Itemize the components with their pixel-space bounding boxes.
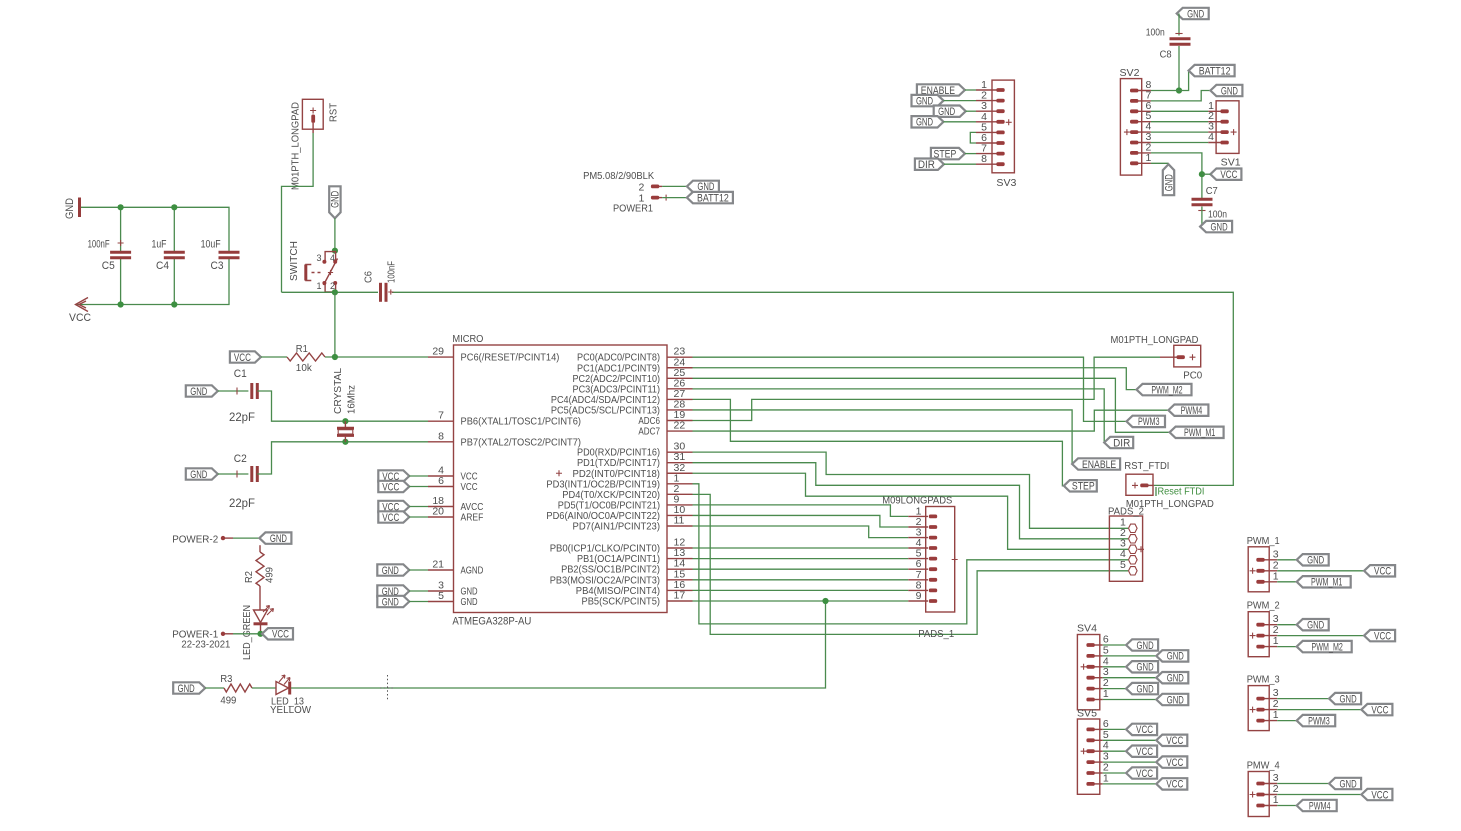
wire SV5.3 wire: [1103, 761, 1157, 763]
svg-text:PD5(T1/OC0B/PCINT21): PD5(T1/OC0B/PCINT21): [558, 500, 660, 511]
ground flag GND (PWM_2): [1297, 619, 1329, 632]
svg-text:GND: GND: [461, 597, 478, 608]
wire PB2 pin14 to PADS_1.6: [693, 568, 909, 570]
wire PWM_2.GND wire: [1277, 624, 1297, 626]
wire PWM_2.PWM_M2 wire: [1277, 646, 1297, 648]
connector RST M01PTH_LONGPAD pad: [290, 99, 340, 190]
junction: [1199, 171, 1205, 177]
wire PB0 pin12 to PADS_1.4: [693, 547, 909, 549]
svg-text:PC0: PC0: [1183, 370, 1202, 382]
svg-text:BATT12: BATT12: [697, 192, 729, 204]
svg-text:GND: GND: [1307, 555, 1324, 567]
wire switch to C6: [282, 291, 379, 293]
svg-text:SV2: SV2: [1120, 67, 1140, 79]
svg-text:LED_GREEN: LED_GREEN: [241, 605, 253, 660]
wire SV3.5 to SV3.6 bridge: [970, 132, 976, 143]
wire SV4.1 wire: [1103, 699, 1157, 701]
ground flag GND (POWER1): [687, 181, 719, 194]
svg-text:PWM_3: PWM_3: [1247, 674, 1280, 686]
wire RST pad to switch: [282, 133, 314, 292]
svg-text:10k: 10k: [296, 362, 313, 374]
svg-text:4: 4: [330, 253, 335, 263]
svg-text:100n: 100n: [1146, 27, 1165, 39]
wire SV2.1 to GND: [1151, 162, 1169, 164]
svg-text:M01PTH_LONGPAD: M01PTH_LONGPAD: [1111, 334, 1199, 346]
svg-text:ENABLE: ENABLE: [1082, 459, 1116, 471]
wire to BATT12 flag: [1179, 71, 1189, 91]
svg-text:PWM_M1: PWM_M1: [1311, 577, 1342, 589]
capacitor C3 10uF: [201, 239, 240, 273]
wire POWER-1 to VCC: [233, 633, 262, 635]
connector PADS_2 (FTDI pads): [1108, 506, 1144, 582]
wire C8 to SV2.8 net: [1178, 46, 1180, 91]
connector SV3: [976, 79, 1017, 189]
svg-text:PB0(ICP1/CLKO/PCINT0): PB0(ICP1/CLKO/PCINT0): [550, 544, 660, 555]
svg-text:C4: C4: [156, 260, 169, 272]
ground flag GND (C1): [186, 385, 218, 398]
net flag DIR: [1104, 437, 1133, 450]
wire PD4 pin2 to PADS_2.5: [693, 494, 1129, 634]
svg-text:PD2(INT0/PCINT18): PD2(INT0/PCINT18): [573, 469, 661, 480]
svg-text:STEP: STEP: [1072, 481, 1095, 493]
ground flag GND (C7): [1200, 221, 1232, 234]
svg-text:VCC: VCC: [1166, 735, 1183, 747]
wire PB3 pin15 to PADS_1.7: [693, 579, 909, 581]
wire SV4.2 wire: [1103, 688, 1126, 690]
connector RST_FTDI M01PTH_LONGPAD pad: [1124, 460, 1214, 510]
ground flag GND (pin3): [377, 585, 409, 598]
power flag VCC (reset pullup): [230, 351, 261, 364]
svg-text:10uF: 10uF: [201, 239, 221, 251]
power flag VCC (SV5.3): [1156, 756, 1187, 769]
ground flag GND (SV4.4): [1126, 661, 1158, 674]
wire LED_13 to PADS_1 pin 9 net: [291, 601, 826, 688]
svg-text:PC3(ADC3/PCINT11): PC3(ADC3/PCINT11): [573, 384, 661, 395]
svg-text:ADC7: ADC7: [638, 427, 660, 438]
svg-text:GND: GND: [178, 683, 195, 695]
wire PWM_2.VCC wire: [1277, 635, 1364, 637]
wire PD3 pin1 to PADS_2.4: [693, 484, 1129, 624]
wire C7 to GND: [1201, 207, 1203, 227]
svg-text:SV4: SV4: [1077, 623, 1097, 635]
connector POWER-1 pin: [172, 629, 233, 641]
svg-text:11: 11: [674, 515, 685, 527]
svg-text:POWER1: POWER1: [613, 203, 653, 215]
svg-text:VCC: VCC: [1374, 566, 1391, 578]
svg-text:PWM4: PWM4: [1181, 405, 1203, 417]
svg-text:PB4(MISO/PCINT4): PB4(MISO/PCINT4): [576, 586, 660, 597]
net flag PWM_M1 (PWM_1): [1297, 576, 1351, 589]
svg-text:VCC: VCC: [1371, 704, 1388, 716]
svg-text:PD3(INT1/OC2B/PCINT19): PD3(INT1/OC2B/PCINT19): [546, 479, 660, 490]
wire PB5 pin17 to PADS_1.9: [693, 600, 909, 602]
net flag DIR (SV3.8): [915, 159, 944, 172]
svg-text:PC4(ADC4/SDA/PCINT12): PC4(ADC4/SDA/PCINT12): [551, 395, 660, 406]
svg-text:1: 1: [1103, 772, 1109, 784]
svg-text:100nF: 100nF: [88, 239, 110, 251]
wire PWM_1.VCC wire: [1277, 570, 1364, 572]
svg-text:M09LONGPADS: M09LONGPADS: [882, 495, 952, 507]
LED LED_GREEN: [241, 605, 274, 660]
wire PWM_3.VCC wire: [1277, 709, 1361, 711]
svg-text:GND: GND: [1187, 8, 1204, 20]
svg-text:PWM4: PWM4: [1309, 800, 1331, 812]
ground flag GND (SV4.5): [1156, 650, 1188, 663]
power flag VCC (SV5.6): [1126, 724, 1157, 737]
wire PC2 pin25 to PWM_M1: [693, 378, 1170, 432]
svg-text:C5: C5: [102, 260, 115, 272]
svg-text:RST: RST: [328, 102, 340, 122]
wire SV5.1 wire: [1103, 783, 1157, 785]
wire RXD pin30 to PADS_2.1: [693, 452, 1129, 528]
svg-text:PB1(OC1A/PCINT1): PB1(OC1A/PCINT1): [577, 554, 660, 565]
resistor R3 499: [220, 673, 252, 707]
wire VCC rail from C3: [76, 258, 230, 305]
wire GND rail to C3: [81, 207, 229, 252]
junction LED net: [822, 598, 828, 604]
svg-text:GND: GND: [1221, 85, 1238, 97]
net flag PWM4 (PMW_4): [1297, 800, 1337, 813]
wire PMW_4.GND wire: [1277, 783, 1329, 785]
svg-text:GND: GND: [1137, 683, 1154, 695]
connector PWM_3: [1247, 674, 1280, 731]
wire GND to pin 3: [409, 590, 428, 592]
net flag PWM3: [1127, 416, 1166, 429]
svg-text:VCC: VCC: [461, 472, 479, 483]
svg-text:GND: GND: [330, 191, 342, 208]
capacitor C8 100n: [1146, 27, 1191, 61]
wire GND to C8: [1178, 14, 1180, 36]
connector PMW_4: [1247, 760, 1280, 817]
svg-text:1: 1: [1273, 635, 1279, 647]
svg-text:AVCC: AVCC: [461, 502, 484, 513]
svg-text:VCC: VCC: [1166, 757, 1183, 769]
svg-text:GND: GND: [382, 565, 399, 577]
capacitor C5 100nF: [88, 239, 132, 273]
wire SV2.2 to VCC/C7 node: [1151, 153, 1202, 198]
svg-text:R2: R2: [243, 571, 255, 583]
wire PC0 pin23 to PWM3: [693, 357, 1127, 421]
wire VCC to AREF: [409, 516, 428, 518]
wire GND to SV3.3: [966, 110, 976, 112]
wire GND to SV3.2: [944, 100, 977, 102]
wire PB1 pin13 to PADS_1.5: [693, 558, 909, 560]
svg-text:MICRO: MICRO: [452, 333, 483, 345]
svg-text:1: 1: [1273, 709, 1279, 721]
svg-text:PD4(T0/XCK/PCINT20): PD4(T0/XCK/PCINT20): [562, 490, 660, 501]
svg-text:4: 4: [1208, 131, 1214, 143]
net flag STEP (SV3.7): [931, 148, 965, 161]
svg-text:PB7(XTAL2/TOSC2/PCINT7): PB7(XTAL2/TOSC2/PCINT7): [461, 437, 582, 448]
power flag VCC (SV5.5): [1156, 735, 1187, 748]
wire SV2.6 to SV1.1: [1151, 110, 1208, 112]
capacitor C6 100nF: [363, 261, 398, 302]
wire C6 to RST_FTDI pad: [392, 292, 1233, 485]
wire GND to R3: [205, 687, 224, 689]
power flag VCC (PWM_3): [1361, 704, 1392, 717]
svg-text:6: 6: [438, 475, 444, 487]
svg-text:C2: C2: [234, 453, 247, 465]
wire SV2.4 to SV1.3: [1151, 131, 1208, 133]
net flag ENABLE: [1072, 458, 1120, 471]
wire SV4.6 wire: [1103, 644, 1126, 646]
svg-text:VCC: VCC: [1374, 630, 1391, 642]
wire POWER1.2 to GND: [662, 185, 687, 187]
svg-text:GND: GND: [190, 386, 207, 398]
svg-text:C7: C7: [1206, 185, 1218, 197]
capacitor C1 22pF: [218, 368, 257, 424]
junction: [171, 301, 177, 307]
power flag VCC (AREF): [378, 511, 409, 524]
power flag VCC (pin6): [378, 481, 409, 494]
svg-text:GND: GND: [1167, 673, 1184, 685]
svg-text:GND: GND: [270, 533, 287, 545]
junction: [342, 439, 348, 445]
svg-text:1: 1: [1146, 152, 1152, 164]
ground flag GND (SV4.3): [1156, 672, 1188, 685]
power flag VCC (PMW_4): [1361, 789, 1392, 802]
svg-text:PMW_4: PMW_4: [1247, 760, 1280, 772]
wire ADC7 pin22 to PWM4: [693, 410, 1169, 431]
svg-text:VCC: VCC: [272, 629, 289, 641]
LED LED_13 YELLOW: [270, 675, 311, 716]
wire TXD pin31 to PADS_2.2: [693, 463, 1129, 539]
origin cross marker: [380, 675, 395, 701]
svg-text:ATMEGA328P-AU: ATMEGA328P-AU: [452, 616, 531, 628]
svg-text:499: 499: [264, 567, 276, 583]
svg-text:PWM_M2: PWM_M2: [1312, 641, 1343, 653]
svg-text:PC6(/RESET/PCINT14): PC6(/RESET/PCINT14): [461, 353, 560, 364]
svg-text:AREF: AREF: [461, 513, 484, 524]
svg-text:PADS_1: PADS_1: [918, 628, 954, 640]
svg-text:22-23-2021: 22-23-2021: [181, 639, 230, 651]
wire SV5.2 wire: [1103, 772, 1126, 774]
wire DIR to SV3.8: [944, 163, 976, 165]
svg-text:PB3(MOSI/OC2A/PCINT3): PB3(MOSI/OC2A/PCINT3): [550, 575, 660, 586]
wire STEP to SV3.7: [965, 153, 976, 155]
wire GND to pin 5: [409, 601, 428, 603]
svg-text:C8: C8: [1160, 49, 1172, 61]
ground flag GND (pin5): [377, 596, 409, 609]
connector SV4: [1077, 623, 1109, 710]
svg-text:C1: C1: [234, 368, 247, 380]
svg-text:1: 1: [1273, 794, 1279, 806]
wire PC5 pin28 to ENABLE: [693, 410, 1073, 464]
power flag VCC (SV5.1): [1156, 778, 1187, 791]
connector PWM_1: [1247, 535, 1280, 592]
resistor R2 499: [243, 545, 276, 610]
svg-text:GND: GND: [1167, 694, 1184, 706]
power flag VCC (SV5.4): [1126, 746, 1157, 759]
svg-text:PWM_2: PWM_2: [1247, 600, 1280, 612]
wire PD6 pin10 to PADS_1.2: [693, 515, 909, 527]
svg-text:POWER-2: POWER-2: [172, 534, 218, 546]
svg-text:PWM_M1: PWM_M1: [1184, 427, 1215, 439]
svg-text:GND: GND: [1137, 640, 1154, 652]
power flag VCC (pin4): [378, 470, 409, 483]
svg-text:5: 5: [1120, 559, 1126, 571]
svg-text:R3: R3: [220, 673, 232, 685]
net flag STEP: [1064, 480, 1097, 493]
wire C4 bottom lead: [173, 258, 175, 305]
svg-text:VCC: VCC: [382, 481, 399, 493]
wire SV2.7 to GND: [1151, 91, 1211, 101]
svg-text:VCC: VCC: [1136, 746, 1153, 758]
ground flag GND (POWER-2): [259, 532, 291, 545]
svg-text:VCC: VCC: [1220, 169, 1237, 181]
svg-text:GND: GND: [1307, 620, 1324, 632]
svg-text:VCC: VCC: [382, 512, 399, 524]
ground flag GND (SV2.1): [1163, 164, 1176, 195]
svg-text:1: 1: [1103, 688, 1109, 700]
svg-text:1uF: 1uF: [152, 239, 167, 251]
wire GND to AGND: [409, 569, 428, 571]
wire SV4.3 wire: [1103, 677, 1157, 679]
junction: [171, 204, 177, 210]
junction: [332, 248, 338, 254]
svg-text:17: 17: [674, 590, 686, 602]
svg-text:PD0(RXD/PCINT16): PD0(RXD/PCINT16): [577, 448, 660, 459]
svg-text:16Mhz: 16Mhz: [346, 385, 358, 414]
wire ADC6 pin19 to PC0 pad: [693, 357, 1161, 420]
svg-text:VCC: VCC: [1136, 724, 1153, 736]
origin tick: [665, 195, 667, 201]
ground flag GND (C8): [1177, 8, 1209, 20]
ground flag GND (PWM_3): [1329, 693, 1361, 706]
svg-text:R1: R1: [296, 343, 308, 355]
svg-text:PC1(ADC1/PCINT9): PC1(ADC1/PCINT9): [577, 363, 660, 374]
svg-text:PWM_M2: PWM_M2: [1151, 384, 1182, 396]
svg-text:ADC6: ADC6: [638, 416, 660, 427]
net flag BATT12 (battery): [1189, 65, 1235, 78]
connector PADS_1 M09LONGPADS: [882, 495, 957, 641]
svg-text:RST_FTDI: RST_FTDI: [1124, 460, 1169, 472]
svg-text:3: 3: [316, 253, 321, 263]
svg-text:VCC: VCC: [1136, 768, 1153, 780]
wire PMW_4.VCC wire: [1277, 794, 1361, 796]
ground flag GND (SV4.6): [1126, 639, 1158, 652]
svg-text:22: 22: [674, 420, 686, 432]
net flag ENABLE (SV3.1): [917, 84, 965, 97]
svg-text:GND: GND: [1340, 693, 1357, 705]
svg-text:GND: GND: [1211, 221, 1228, 233]
wire PC4 pin27 to STEP: [693, 399, 1064, 485]
svg-text:GND: GND: [916, 117, 933, 129]
svg-text:Reset FTDI: Reset FTDI: [1158, 486, 1205, 498]
svg-text:VCC: VCC: [1371, 789, 1388, 801]
svg-text:GND: GND: [461, 587, 478, 598]
power flag VCC (AVCC): [378, 501, 409, 514]
svg-text:VCC: VCC: [1166, 779, 1183, 791]
wire POWER1.1 to BATT12: [662, 197, 687, 199]
svg-text:8: 8: [981, 153, 987, 165]
connector PC0 M01PTH_LONGPAD pad: [1111, 334, 1203, 382]
junction: [342, 418, 348, 424]
svg-text:PADS_2: PADS_2: [1108, 506, 1144, 518]
ground flag GND (PWM_1): [1297, 554, 1329, 567]
wire PC3 pin26 to DIR: [693, 389, 1105, 443]
wire VCC to pin 4: [409, 475, 428, 477]
connector SV1: [1208, 100, 1241, 169]
svg-text:1: 1: [1273, 570, 1279, 582]
crystal CRYSTAL 16Mhz: [332, 368, 358, 442]
svg-text:AGND: AGND: [461, 566, 484, 577]
connector SV2: [1120, 67, 1152, 175]
svg-text:C3: C3: [211, 260, 224, 272]
wire SV2.8 to BATT12 node: [1151, 90, 1179, 92]
svg-text:22pF: 22pF: [229, 410, 255, 424]
svg-text:PD6(AIN0/OC0A/PCINT22): PD6(AIN0/OC0A/PCINT22): [546, 511, 660, 522]
svg-text:CRYSTAL: CRYSTAL: [332, 368, 344, 414]
wire PD5 pin9 to PADS_1.1: [693, 505, 909, 517]
wire PWM_1.PWM_M1 wire: [1277, 581, 1297, 583]
wire SV2.5 to SV1.2: [1151, 121, 1208, 123]
wire VCC to AVCC: [409, 506, 428, 508]
wire PB4 pin16 to PADS_1.8: [693, 589, 909, 591]
wire R1 to MICRO pin 29: [325, 356, 428, 358]
connector POWER-2 pin: [172, 534, 233, 546]
connector SV5: [1077, 708, 1109, 795]
ground flag GND (SV4.1): [1156, 694, 1188, 707]
svg-text:SWITCH: SWITCH: [288, 241, 300, 281]
svg-text:GND: GND: [64, 198, 76, 219]
capacitor C4 1uF: [152, 239, 185, 273]
svg-text:PD7(AIN1/PCINT23): PD7(AIN1/PCINT23): [573, 522, 661, 533]
svg-text:DIR: DIR: [1113, 437, 1130, 449]
svg-text:PC0(ADC0/PCINT8): PC0(ADC0/PCINT8): [577, 353, 660, 364]
svg-text:1: 1: [316, 281, 321, 291]
svg-text:20: 20: [432, 506, 444, 518]
junction: [118, 204, 124, 210]
wire C4 top lead: [173, 207, 175, 252]
svg-text:VCC: VCC: [69, 312, 91, 324]
svg-text:GND: GND: [382, 596, 399, 608]
svg-text:C6: C6: [363, 271, 375, 283]
ground flag GND (PMW_4): [1329, 778, 1361, 791]
connector PWM_2: [1247, 600, 1280, 657]
svg-text:PWM_1: PWM_1: [1247, 535, 1280, 547]
ground flag GND (SV3.4): [912, 116, 944, 129]
wire GND to SV3.4: [944, 121, 977, 123]
wire SV2.3 to SV1.4: [1151, 142, 1208, 144]
wire C5 bottom lead: [120, 258, 122, 305]
junction: [1176, 87, 1182, 93]
svg-text:GND: GND: [938, 106, 955, 118]
ground flag GND (C2): [186, 468, 218, 481]
junction: [332, 354, 338, 360]
ground flag GND (SV3.3): [934, 106, 966, 119]
IC MICRO ATMEGA328P-AU: [428, 333, 693, 628]
ground flag GND (SV4.2): [1126, 683, 1158, 696]
wire SV5.4 wire: [1103, 750, 1126, 752]
wire INT0 pin32 to PADS_2.3: [693, 473, 1129, 549]
svg-text:PD1(TXD/PCINT17): PD1(TXD/PCINT17): [577, 458, 660, 469]
svg-text:9: 9: [916, 590, 922, 602]
power flag VCC (SV2.2): [1210, 169, 1241, 182]
power flag VCC (PWM_1): [1364, 565, 1395, 578]
svg-text:SV5: SV5: [1077, 708, 1097, 720]
svg-text:PM5.08/2/90BLK: PM5.08/2/90BLK: [583, 170, 654, 182]
wire SV4.5 wire: [1103, 655, 1157, 657]
wire ENABLE to SV3.1: [965, 89, 976, 91]
svg-text:21: 21: [432, 559, 444, 571]
ground flag GND (SV2.7): [1210, 85, 1242, 98]
power flag VCC (POWER-1): [262, 628, 293, 641]
svg-text:GND: GND: [1137, 662, 1154, 674]
junction: [118, 301, 124, 307]
capacitor C7 100n: [1192, 185, 1228, 221]
svg-text:VCC: VCC: [234, 352, 251, 364]
